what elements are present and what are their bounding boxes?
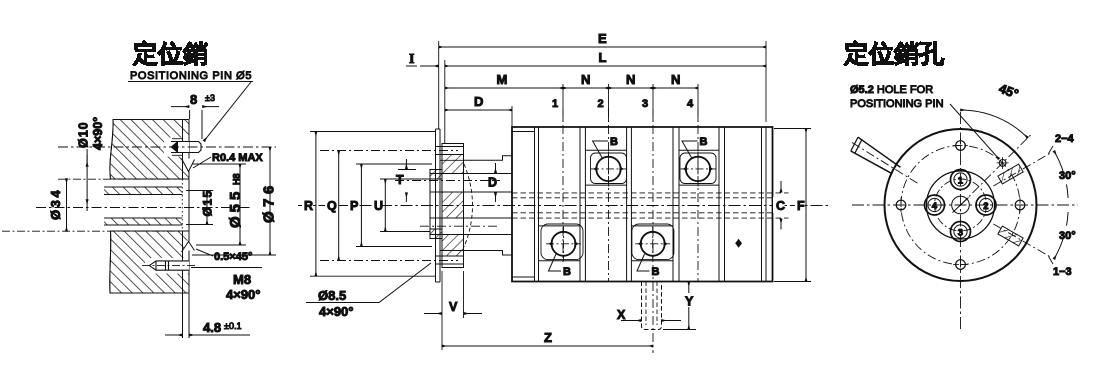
body outline xyxy=(512,127,773,282)
svg-text:R: R xyxy=(304,199,313,213)
hidden bore lines outer xyxy=(512,193,789,218)
leader R0.4 xyxy=(193,157,211,168)
title 定位銷 xyxy=(132,40,208,66)
port3 boss pocket xyxy=(632,224,674,260)
dim F bracket xyxy=(805,129,807,282)
housing upper outline xyxy=(110,120,189,180)
leader to pin hole xyxy=(950,104,999,159)
svg-text:F: F xyxy=(797,199,805,213)
section mark upper CL xyxy=(993,154,1049,187)
svg-text:4: 4 xyxy=(932,201,938,212)
port1 boss xyxy=(539,226,581,261)
svg-text:X: X xyxy=(617,308,626,322)
svg-text:H8: H8 xyxy=(232,173,242,185)
drain CL xyxy=(652,265,654,353)
svg-text:N: N xyxy=(671,72,680,87)
flange outline xyxy=(442,144,464,268)
passage 2 inner xyxy=(979,198,992,211)
dim 45 arc xyxy=(961,110,1028,138)
leader 1-3 xyxy=(1049,257,1054,265)
svg-text:P: P xyxy=(350,199,358,213)
dim C arrows xyxy=(780,181,782,192)
svg-text:Ø55: Ø55 xyxy=(227,188,244,228)
svg-text:Ø15: Ø15 xyxy=(201,189,215,216)
port4 plug circle xyxy=(686,157,710,181)
hatched housing lower block xyxy=(110,231,189,293)
port CL1 dashdot xyxy=(562,108,564,262)
cluster bolt circle xyxy=(935,179,987,231)
dim N2 line xyxy=(609,87,654,89)
dim 8 line left xyxy=(171,106,189,108)
port1 side points xyxy=(548,241,578,246)
ext L left xyxy=(444,60,446,144)
T centerline xyxy=(395,180,500,182)
svg-text:C: C xyxy=(776,199,785,213)
svg-text:3: 3 xyxy=(958,228,963,239)
plate line right xyxy=(188,120,190,339)
svg-text:Ø34: Ø34 xyxy=(48,188,63,220)
svg-text:30°: 30° xyxy=(1059,230,1076,242)
dim 8 line right xyxy=(203,106,220,108)
passage 4 inner xyxy=(928,198,941,211)
passage 4 outer xyxy=(925,195,945,215)
port centerline 4 xyxy=(697,84,699,122)
housing lower outline xyxy=(110,231,189,293)
flange hatch lower xyxy=(442,235,464,257)
center circle xyxy=(952,196,970,214)
M8 screw centerline xyxy=(142,265,196,267)
port1 boss pocket xyxy=(541,224,583,260)
port1 cross xyxy=(546,226,581,261)
ext D right xyxy=(511,106,513,127)
svg-text:4×90°: 4×90° xyxy=(226,287,260,302)
dim Ø34 bracket xyxy=(66,179,68,232)
section mark lower CL xyxy=(993,224,1049,257)
svg-text:M8: M8 xyxy=(233,272,251,287)
bolt circle xyxy=(901,146,1020,265)
svg-text:Q: Q xyxy=(327,199,337,213)
dim R bracket xyxy=(315,132,317,277)
dim D line xyxy=(445,109,512,111)
adapter plate xyxy=(436,129,441,282)
port2 plug circle xyxy=(596,157,620,181)
svg-text:2−4: 2−4 xyxy=(1055,133,1075,145)
bolt hole top xyxy=(956,141,966,151)
section mark lower hatch xyxy=(998,226,1023,246)
spline dashed arc xyxy=(464,164,473,247)
drain boss hidden outline xyxy=(642,282,662,330)
dim R text xyxy=(302,197,313,213)
shaft bottom xyxy=(464,251,513,256)
dim Ø10 line xyxy=(86,149,88,202)
stub hatch upper xyxy=(430,170,442,180)
dim V line left xyxy=(424,313,442,315)
bearing step lines xyxy=(512,132,535,278)
handle lower line xyxy=(851,151,892,174)
leader Ø8.5 xyxy=(306,263,431,303)
svg-text:Ø10: Ø10 xyxy=(77,121,91,148)
svg-text:1: 1 xyxy=(958,176,964,187)
bore dotted edge at plate xyxy=(181,179,183,231)
passage 1 inner xyxy=(954,173,967,186)
svg-text:4×90°: 4×90° xyxy=(319,304,353,319)
groove lines xyxy=(535,127,767,282)
diagonal 45 centerline xyxy=(961,135,1032,206)
bolt hole bottom xyxy=(956,260,966,270)
dim E line xyxy=(439,46,766,48)
leader B port2 xyxy=(593,141,608,159)
drain thread dashed xyxy=(646,282,657,326)
svg-text:±0.1: ±0.1 xyxy=(224,321,241,331)
chamfer notch 0.5x45 xyxy=(182,242,195,253)
passage 2 outer xyxy=(976,195,996,215)
positioning pin body xyxy=(171,142,201,153)
ext Y line xyxy=(663,329,696,331)
port2 cross xyxy=(591,152,626,187)
svg-text:4.8: 4.8 xyxy=(203,320,221,335)
dim Q bracket xyxy=(338,151,340,261)
leader underline positioning pin xyxy=(128,81,253,83)
dim Ø55 ext lines xyxy=(192,164,246,245)
relief groove R0.4 xyxy=(182,159,195,172)
M8 screw zone white xyxy=(145,258,189,274)
main axis midview xyxy=(298,205,828,207)
leader B port1 xyxy=(549,254,562,271)
ext F lines xyxy=(774,129,811,282)
svg-text:30°: 30° xyxy=(1059,170,1076,182)
svg-text:L: L xyxy=(599,50,607,65)
diamond mark xyxy=(735,239,742,248)
port2 boss xyxy=(585,150,626,185)
dim U text xyxy=(372,197,382,213)
dim d small arrows xyxy=(495,163,497,173)
dim 30 arc lower xyxy=(1067,212,1069,226)
port centerline 1 xyxy=(562,84,564,122)
ext E left xyxy=(438,41,440,129)
hatched housing upper block xyxy=(110,120,189,180)
ext U lines xyxy=(380,179,430,232)
dim Y bracket xyxy=(688,282,690,330)
dim N3 line xyxy=(653,87,698,89)
plate bolt hole bottom xyxy=(436,256,464,264)
port4 side points xyxy=(683,166,714,171)
dim Ø15 ext lines xyxy=(186,191,213,225)
svg-text:I: I xyxy=(409,52,414,67)
dim U bracket xyxy=(384,179,386,232)
svg-text:Ø76: Ø76 xyxy=(261,181,278,223)
handle upper line xyxy=(858,137,901,167)
svg-text:B: B xyxy=(610,136,618,148)
pin hole Ø5.2 xyxy=(999,160,1006,167)
passage 3 outer xyxy=(951,222,971,242)
main axis leftview xyxy=(36,207,250,209)
svg-text:±3: ±3 xyxy=(205,93,215,103)
dim C text xyxy=(773,197,783,213)
port3 plug circle xyxy=(641,232,665,256)
svg-text:8: 8 xyxy=(190,92,197,107)
bolt hole top cross xyxy=(953,138,968,153)
lower passage centerline xyxy=(420,225,500,227)
port CL4 dashdot xyxy=(697,108,699,281)
thread strip upper xyxy=(104,187,182,195)
svg-text:B: B xyxy=(700,136,708,148)
bolt hole left xyxy=(896,200,906,210)
dim I line xyxy=(420,65,438,67)
ext T lines xyxy=(398,169,416,171)
ext V lines xyxy=(442,271,464,318)
passage 1 outer xyxy=(951,170,971,190)
dim Ø10 arrow up xyxy=(86,200,88,212)
svg-text:D: D xyxy=(488,176,497,190)
center slash xyxy=(953,198,969,213)
relief notch white lower xyxy=(181,237,196,254)
svg-text:Ø5.2 HOLE FOR: Ø5.2 HOLE FOR xyxy=(850,84,933,96)
ext E right xyxy=(765,41,767,122)
svg-text:1−3: 1−3 xyxy=(1053,266,1072,278)
dim P bracket xyxy=(360,164,362,247)
port2 side points xyxy=(593,166,624,171)
leader to pin xyxy=(204,82,251,141)
dim Y text xyxy=(684,293,695,307)
bolt hole right xyxy=(1015,200,1025,210)
pin hole cross xyxy=(997,157,1009,169)
port centerline 2 xyxy=(608,84,610,122)
leader B port4 xyxy=(682,141,698,159)
dim Z line xyxy=(442,345,653,347)
stub outline xyxy=(430,170,442,239)
svg-text:E: E xyxy=(598,31,607,46)
svg-text:N: N xyxy=(581,72,590,87)
dim P text xyxy=(348,197,358,213)
dim L line xyxy=(445,65,766,67)
svg-text:0.5×45°: 0.5×45° xyxy=(214,251,252,263)
plate line left xyxy=(182,120,184,339)
svg-text:D: D xyxy=(474,94,483,109)
svg-text:2: 2 xyxy=(598,98,604,110)
hidden bore lines inner xyxy=(512,198,773,213)
port CL3 dashdot xyxy=(652,108,654,262)
svg-text:R0.4 MAX: R0.4 MAX xyxy=(212,152,263,164)
dim Ø55 bracket xyxy=(239,164,241,245)
port2 boss pocket xyxy=(591,153,627,184)
dim T arrows xyxy=(405,159,407,169)
svg-text:4×90°: 4×90° xyxy=(91,117,105,150)
flange hatch upper xyxy=(442,155,464,174)
bolt hole left tick xyxy=(900,198,902,213)
port4 boss pocket xyxy=(680,153,716,184)
svg-text:B: B xyxy=(563,266,571,278)
dim Ø76 ext line lower xyxy=(192,254,276,256)
dim 4.8 line right xyxy=(190,334,251,336)
bore wall upper dashdot xyxy=(58,178,182,180)
svg-text:1: 1 xyxy=(552,98,558,110)
port4 cross xyxy=(681,152,716,187)
dim Ø76 bracket xyxy=(269,147,271,255)
bolt circle CL bottom xyxy=(320,260,458,262)
leader M8 xyxy=(191,267,262,269)
svg-text:T: T xyxy=(396,173,404,187)
dim X line left xyxy=(621,320,641,322)
plate bolt hole top xyxy=(436,147,464,155)
svg-text:3: 3 xyxy=(642,98,648,110)
bolt hole bottom cross xyxy=(953,257,968,272)
shaft top xyxy=(464,156,513,161)
svg-text:Z: Z xyxy=(544,330,552,345)
outer flange circle xyxy=(885,129,1037,281)
pin head lines xyxy=(172,139,183,156)
port CL2 dashdot xyxy=(608,108,610,281)
ext R lines xyxy=(310,132,436,277)
port1 plug circle xyxy=(552,232,576,256)
pin cavity white xyxy=(164,138,189,157)
bolt hole right tick xyxy=(1019,198,1021,213)
pin centerline xyxy=(58,146,276,148)
dim 4.8 line left xyxy=(165,334,182,336)
dim N1 line xyxy=(563,87,609,89)
pilot boss circle xyxy=(927,171,995,239)
handle cap xyxy=(851,137,862,153)
handle axis xyxy=(852,143,918,184)
dim 8 ext lines xyxy=(190,110,202,139)
svg-text:4: 4 xyxy=(687,98,694,110)
ext P lines xyxy=(356,160,464,250)
dim Ø15 bracket xyxy=(206,191,208,225)
ext Z left xyxy=(441,318,443,350)
bore wall lower dashdot xyxy=(2,230,182,232)
port3 side points xyxy=(638,241,668,246)
port3 boss xyxy=(631,226,673,261)
title 定位銷孔 xyxy=(843,40,945,66)
dim V line right xyxy=(464,313,482,315)
leader 0.5x45 xyxy=(196,249,213,256)
leader B port3 xyxy=(637,254,650,271)
dim Ø10 arrow down xyxy=(86,155,88,167)
thread strip upper lines xyxy=(104,187,182,195)
dim Q text xyxy=(325,197,336,213)
bolt circle CL top xyxy=(320,150,458,152)
relief notch white upper xyxy=(181,157,196,176)
crosshair horizontal xyxy=(852,204,1078,206)
leader 2-4 xyxy=(1049,146,1054,154)
port4 boss xyxy=(679,150,719,185)
flange hatch middle xyxy=(442,192,464,218)
dim F text xyxy=(795,197,805,213)
thread strip lower xyxy=(104,218,182,225)
M8 screw body xyxy=(149,261,189,270)
dim 30 arc upper xyxy=(1054,151,1064,173)
svg-text:V: V xyxy=(449,300,458,314)
svg-text:M: M xyxy=(497,72,508,87)
dim X line right xyxy=(662,320,682,322)
port centerline 3 xyxy=(652,84,654,122)
section mark upper hatch xyxy=(998,164,1023,184)
svg-text:Ø8.5: Ø8.5 xyxy=(318,288,346,303)
svg-text:U: U xyxy=(374,199,383,213)
passage 3 inner xyxy=(954,225,967,238)
dim M line xyxy=(445,87,563,89)
crosshair vertical xyxy=(960,112,962,330)
port3 cross xyxy=(635,226,670,261)
svg-text:POSITIONING PIN Ø5: POSITIONING PIN Ø5 xyxy=(130,70,252,82)
svg-text:POSITIONING PIN: POSITIONING PIN xyxy=(850,98,944,110)
stub hatch lower xyxy=(430,229,442,239)
svg-text:2: 2 xyxy=(983,201,988,212)
pin head chamfer marks xyxy=(171,141,179,153)
dim I underline xyxy=(406,65,417,67)
passage tube lines xyxy=(430,174,512,235)
thread strip lower lines xyxy=(104,218,182,225)
svg-text:Y: Y xyxy=(685,295,694,309)
svg-text:N: N xyxy=(626,72,635,87)
